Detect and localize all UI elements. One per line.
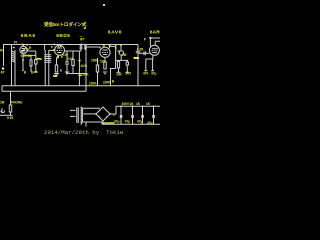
resistor R4 body xyxy=(96,65,98,72)
transformer IFT2 xyxy=(80,45,88,52)
tick x23 xyxy=(22,59,24,61)
capacitor C1 column x31 xyxy=(30,56,32,71)
wire V3 plate drop xyxy=(103,45,105,48)
bridge rectifier D1 diamond xyxy=(96,107,110,121)
wire IFT1 bottoms down xyxy=(45,66,49,86)
wire x138 down to bus A xyxy=(137,53,139,86)
svg-text:47μ: 47μ xyxy=(125,120,131,124)
wire jack column xyxy=(10,91,12,105)
svg-text:250K: 250K xyxy=(81,73,89,77)
resistor R5 body xyxy=(104,62,106,69)
resistor R1 body x31 xyxy=(30,60,32,66)
pin specks V2 xyxy=(51,46,53,48)
wire volume wire corner xyxy=(111,69,116,86)
node V4 plate dot xyxy=(149,37,151,39)
svg-text:AVC: AVC xyxy=(81,64,88,68)
wire V2 plate to IFT2 xyxy=(64,50,81,52)
wire R3 to ground bus xyxy=(72,66,74,74)
tube V2 6BD6 envelope xyxy=(55,45,65,55)
wire plate drop tube V1 xyxy=(23,45,25,47)
ground V4 cathode ticks xyxy=(144,70,154,72)
capacitor C6 coupling plates xyxy=(136,51,140,53)
ground C5 xyxy=(125,71,129,73)
wire grid drop to tube V3 xyxy=(99,47,101,49)
node cap C5 top xyxy=(126,60,128,62)
bridge diode ticks xyxy=(99,110,107,118)
node PSU bus dots xyxy=(120,105,122,107)
wire AVC bus B xyxy=(2,90,86,92)
wire V1 grid wire going right xyxy=(23,54,36,56)
wire L1 bottoms to AVC bus xyxy=(12,62,16,86)
svg-text:6BA6: 6BA6 xyxy=(21,33,36,39)
node bridge left vertex xyxy=(95,113,97,115)
transformer IFT1 xyxy=(44,50,51,66)
wire pot bottom xyxy=(120,55,122,60)
svg-text:受信5mトロダイン式: 受信5mトロダイン式 xyxy=(44,21,87,28)
svg-text:22K: 22K xyxy=(100,60,107,64)
svg-text:AT: AT xyxy=(1,71,5,75)
node V2 plate junction xyxy=(53,44,55,46)
stray dot top xyxy=(103,4,105,6)
capacitor C3 plates xyxy=(65,62,69,64)
svg-text:100K: 100K xyxy=(91,59,99,63)
wire top B+ bus xyxy=(3,44,138,46)
wire IFT2 secondary down x86 xyxy=(85,50,87,92)
label V2 cathode gnd xyxy=(53,75,57,77)
ground V2 cathode xyxy=(54,74,59,76)
svg-text:1K: 1K xyxy=(146,102,151,106)
wire V2 plate drop xyxy=(58,45,60,47)
tube V4 internals xyxy=(152,49,158,53)
wire PSU top bus xyxy=(116,105,160,107)
svg-text:0.05 1K: 0.05 1K xyxy=(21,54,33,58)
wire R7 to jack wire xyxy=(10,112,12,115)
wire V3 diode drop xyxy=(109,45,111,49)
svg-text:6AR5: 6AR5 xyxy=(150,30,160,36)
wire T1 bottom to gnd bus xyxy=(83,122,103,127)
wire V2 grid wire xyxy=(49,49,55,51)
tube V4 6AR5 envelope xyxy=(149,45,159,55)
tube V1 6BA6 envelope xyxy=(20,46,27,53)
speck coil lead xyxy=(13,47,15,49)
capacitor C2 body xyxy=(35,60,37,65)
wire AVC bus A xyxy=(2,85,160,87)
node IFT2 top xyxy=(80,44,82,46)
ground R6 xyxy=(117,71,121,73)
resistor R3 body xyxy=(72,60,74,66)
wire IFT1 top lead xyxy=(44,45,46,51)
arrow blob pot wiper xyxy=(134,57,140,59)
capacitor C10 filter xyxy=(142,106,144,124)
wire grid line V4 xyxy=(139,52,150,54)
wire V3 cathode xyxy=(104,57,106,62)
svg-text:6AV6: 6AV6 xyxy=(108,30,122,36)
wire V4 plate to OPT xyxy=(150,38,160,41)
wire bus AB left join xyxy=(1,86,3,92)
svg-text:47μ: 47μ xyxy=(147,121,153,125)
wire V1 plate wire right xyxy=(27,50,36,52)
wire ground bus segment xyxy=(69,73,86,75)
inductor L1 bar antenna xyxy=(12,50,16,62)
ground R5 xyxy=(103,72,107,74)
wire x86 riser xyxy=(85,74,87,92)
svg-text:47μ: 47μ xyxy=(137,119,143,123)
svg-text:1K: 1K xyxy=(130,102,135,106)
svg-text:6BD6: 6BD6 xyxy=(56,33,70,39)
svg-text:1K: 1K xyxy=(136,102,141,106)
capacitor C11 filter xyxy=(153,106,155,124)
svg-text:47μ: 47μ xyxy=(151,72,157,76)
wire R4 down to bus A xyxy=(97,72,99,86)
wire R3 drop xyxy=(72,51,74,60)
tube V2 internals xyxy=(57,46,63,53)
svg-text:.003: .003 xyxy=(125,72,131,76)
resistor R6 10K xyxy=(118,61,120,73)
svg-text:E: E xyxy=(60,69,62,73)
transformer T1 primary stubs xyxy=(70,110,76,116)
potentiometer VR1 xyxy=(119,51,123,55)
wire pot top lead xyxy=(120,45,122,51)
wire screen drop x79.4 xyxy=(78,51,80,86)
tube V1 internals xyxy=(21,48,26,53)
wire AF wire y60 xyxy=(116,59,128,61)
svg-text:M: M xyxy=(0,49,3,53)
svg-text:0.01: 0.01 xyxy=(67,57,73,61)
svg-text:10K: 10K xyxy=(116,73,123,77)
wire V4 plate drop xyxy=(150,38,155,46)
wire bus drop x138 xyxy=(137,45,139,51)
wire diamond bottom to bus xyxy=(102,121,104,124)
wire detector drop xyxy=(110,46,116,68)
transformer T1 windings xyxy=(77,107,83,125)
svg-text:PHONE: PHONE xyxy=(11,101,22,105)
ground C3 xyxy=(65,72,69,74)
svg-text:47μ: 47μ xyxy=(114,120,120,124)
wire V3 cathode resistor column xyxy=(97,58,99,65)
capacitor C7 plates vertical xyxy=(144,51,146,55)
svg-text:2014/Mar/29th by Tokiw: 2014/Mar/29th by Tokiw xyxy=(44,129,124,136)
wire PSU bottom bus xyxy=(102,123,160,125)
wire bridge out riser xyxy=(110,106,116,114)
svg-text:220K: 220K xyxy=(103,81,111,85)
wire left antenna rail xyxy=(3,45,5,67)
wire V1 cathode column xyxy=(22,54,24,71)
jack J1 phone xyxy=(1,108,5,113)
wire V4 cathode pair xyxy=(146,55,153,70)
svg-text:+: + xyxy=(113,114,115,118)
svg-text:FI: FI xyxy=(14,41,17,45)
svg-text:IFT: IFT xyxy=(80,38,85,42)
wire V2 cathode xyxy=(57,55,59,65)
svg-text:220K: 220K xyxy=(89,82,97,86)
tube V3 internals xyxy=(102,50,108,55)
label on bottom bus xyxy=(104,122,115,123)
wire jack bottom wire xyxy=(0,114,13,116)
capacitor C5 0.003 xyxy=(126,61,128,73)
resistor R2 cathode body xyxy=(55,65,57,72)
svg-text:470: 470 xyxy=(143,72,149,76)
label left of IFT1 xyxy=(40,58,42,60)
svg-text:1M: 1M xyxy=(0,101,5,105)
capacitor C3 0.01 lead xyxy=(66,51,68,72)
svg-text:0.05: 0.05 xyxy=(7,116,13,120)
resistor R7 body xyxy=(9,105,11,112)
node bridge out xyxy=(109,113,111,115)
wire T1 sec to bridge top xyxy=(83,107,100,109)
capacitor C9 filter xyxy=(132,106,134,124)
capacitor C2 column x36 xyxy=(35,51,37,71)
wire coil L1 top lead xyxy=(11,45,13,51)
wire IFT2 secondary to grid xyxy=(86,46,101,48)
svg-text:1M: 1M xyxy=(122,53,127,57)
svg-text:0.05: 0.05 xyxy=(137,48,143,52)
capacitor C8 filter xyxy=(120,106,122,124)
node ANT terminal xyxy=(2,67,5,70)
wire T1 sec to bridge left xyxy=(84,113,97,115)
speck under title xyxy=(84,27,86,29)
tube V3 6AV6 envelope xyxy=(100,47,110,57)
speck bus x116 xyxy=(115,44,117,46)
